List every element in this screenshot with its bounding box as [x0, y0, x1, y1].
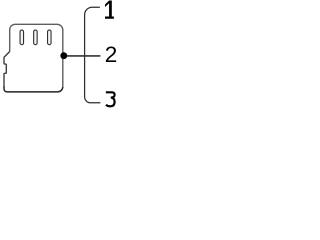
microSD card J1 outline: bottom edge (dark) — [4, 86, 63, 92]
junction node on card edge — [60, 52, 67, 59]
microSD card J1 outline: left notch / chamfer — [4, 52, 10, 87]
pin label 1 — [105, 1, 114, 19]
card contact slot 1 — [20, 30, 24, 45]
pin label 3 — [106, 92, 115, 106]
svg-text:2: 2 — [105, 42, 118, 67]
microSD card J1 outline: top/left-upper/right (gray) — [10, 24, 63, 86]
card contact slot 2 — [34, 30, 38, 45]
connector bracket pins 1-3 — [85, 7, 101, 103]
wire pin 2 — [64, 55, 101, 57]
card contact slot 3 — [48, 30, 52, 45]
microSD card J1 body fill — [4, 24, 63, 92]
